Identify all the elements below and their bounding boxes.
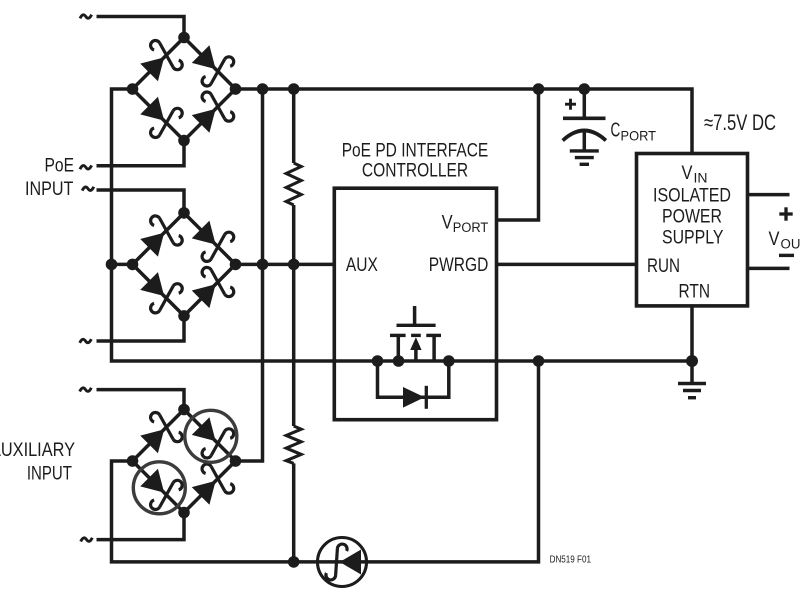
tilde mark top AC input xyxy=(80,15,92,19)
tilde mark INPUT line xyxy=(82,187,94,191)
wire RTN lead down to ground xyxy=(690,306,694,382)
junction dot VPORT riser / top rail xyxy=(533,83,545,95)
svg-text:AUX: AUX xyxy=(346,255,378,276)
bus wire from top rail to BR3 right node (AUX bus) xyxy=(236,89,263,461)
svg-text:RUN: RUN xyxy=(647,256,680,277)
op-box U2 isolated power supply xyxy=(637,154,748,306)
wire stub BR2 left node to left bus xyxy=(112,263,133,267)
junction dot AUX bus / AUX wire xyxy=(257,259,269,271)
mosfet Q1 body arrow xyxy=(410,337,421,350)
mosfet Q1 gate lead xyxy=(413,306,417,324)
bridge BR1 edge wires xyxy=(133,38,185,90)
circled schottky diode D5 xyxy=(326,544,361,580)
bridge BR3 node dots xyxy=(178,404,190,416)
bridge BR2 schottky diode D2 (top to right) xyxy=(187,216,236,265)
op-box U1 PoE PD interface controller xyxy=(334,188,496,420)
mosfet Q1 gate bar xyxy=(397,324,436,327)
wire BR1 left node down the left bus to negative rail xyxy=(112,89,693,361)
wire aux top tilde to bridge BR3 top node xyxy=(97,390,185,410)
circled schottky diode D5 circle xyxy=(318,538,367,587)
wire CPORT lower lead xyxy=(583,132,587,151)
wire resistor bus lower segment xyxy=(292,463,296,562)
resistor R1 xyxy=(286,163,301,205)
wire PoE~ to bridge BR1 bottom node xyxy=(97,141,185,166)
wire lower tilde to bridge BR2 bottom node xyxy=(97,316,185,341)
svg-text:PoE PD INTERFACE: PoE PD INTERFACE xyxy=(342,140,489,161)
ground symbol main xyxy=(678,382,706,385)
junction dot return riser / source rail xyxy=(533,355,545,367)
bridge BR3 schottky diode D4 (bottom to right) xyxy=(187,461,236,510)
svg-text:PWRGD: PWRGD xyxy=(429,255,489,276)
wire VOUT negative stub xyxy=(748,267,790,271)
wire BR3 left node down to bottom return rail xyxy=(112,361,539,562)
svg-text:POWER: POWER xyxy=(662,207,722,228)
junction dot left bus / BR2 left xyxy=(106,259,118,271)
wire VOUT positive stub xyxy=(748,193,790,197)
bridge BR1 node dots xyxy=(178,32,190,44)
bridge BR3 schottky diode D2 (top to right) xyxy=(187,412,236,461)
capacitor CPORT curved plate xyxy=(563,131,606,141)
svg-text:CONTROLLER: CONTROLLER xyxy=(362,160,468,181)
top positive rail from BR1 right node to VIN xyxy=(236,89,693,154)
wire INPUT~ to bridge BR2 top node xyxy=(97,190,185,213)
wire resistor bus middle segment xyxy=(292,205,296,426)
wire CPORT lead from top rail xyxy=(583,89,587,117)
svg-text:AUXILIARY: AUXILIARY xyxy=(0,440,75,461)
bridge BR2 schottky diode D4 (bottom to right) xyxy=(187,264,236,313)
bridge BR1 schottky diode D4 (bottom to right) xyxy=(187,89,236,138)
body diode D6 triangle xyxy=(403,387,425,408)
svg-text:DN519 F01: DN519 F01 xyxy=(550,554,592,566)
junction dot loop right / source rail xyxy=(443,355,455,367)
svg-text:ISOLATED: ISOLATED xyxy=(653,186,731,207)
bridge BR1 schottky diode D3 (left to bottom) xyxy=(135,92,184,141)
mosfet Q1 source lead xyxy=(397,335,401,361)
bridge BR1 schottky diode D2 (top to right) xyxy=(187,40,236,89)
capacitor CPORT plus sign xyxy=(565,103,576,106)
junction dot resistor bus / AUX wire xyxy=(288,259,300,271)
bridge BR3 edge wires xyxy=(133,410,185,462)
circle highlight around BR3 diode D3 xyxy=(133,462,185,514)
label minus sign at VOUT xyxy=(779,254,794,257)
junction dot RTN / negative rail xyxy=(686,355,698,367)
tilde mark aux top xyxy=(80,388,92,392)
junction dot resistor bus / bottom rail xyxy=(288,556,300,568)
bridge BR3 schottky diode D3 (left to bottom) xyxy=(135,464,184,513)
wire PWRGD pin to RUN pin xyxy=(497,263,637,267)
wire aux bottom tilde to bridge BR3 bottom node xyxy=(97,513,185,540)
junction dot loop left / source rail xyxy=(372,355,384,367)
mosfet Q1 channel segments xyxy=(390,334,406,337)
wire VPORT pin up to top rail xyxy=(497,89,539,220)
svg-text:≈7.5V DC: ≈7.5V DC xyxy=(704,110,776,135)
wire resistor bus upper segment xyxy=(292,89,296,163)
svg-text:INPUT: INPUT xyxy=(25,179,74,200)
bridge BR2 edge wires xyxy=(133,213,185,265)
mosfet Q1 drain lead xyxy=(432,335,436,361)
ground symbol below CPORT xyxy=(570,149,599,152)
bridge BR2 schottky diode D1 (lower-left to top) xyxy=(135,213,184,262)
svg-text:SUPPLY: SUPPLY xyxy=(662,228,724,249)
svg-text:RTN: RTN xyxy=(679,282,711,303)
bridge BR2 node dots xyxy=(178,207,190,219)
bridge BR3 schottky diode D1 (lower-left to top) xyxy=(135,409,184,458)
body diode D6 cathode bar xyxy=(425,386,428,409)
resistor R2 xyxy=(286,426,301,463)
junction dot AUX bus / top rail xyxy=(257,83,269,95)
wire AUX pin to BR2 right node xyxy=(236,263,335,267)
tilde mark aux bottom xyxy=(81,538,93,542)
junction dot source lead / source rail xyxy=(393,355,405,367)
capacitor CPORT top plate xyxy=(563,116,606,120)
junction dot CPORT / top rail xyxy=(579,83,591,95)
junction dot resistor bus / top rail xyxy=(288,83,300,95)
label plus sign at VOUT xyxy=(779,212,792,215)
svg-text:INPUT: INPUT xyxy=(27,463,72,484)
circle highlight around BR3 diode D2 xyxy=(185,410,237,462)
bridge BR2 schottky diode D3 (left to bottom) xyxy=(135,267,184,316)
tilde mark lower PoE AC line xyxy=(80,339,92,343)
bridge BR1 schottky diode D1 (lower-left to top) xyxy=(135,37,184,86)
wire from top tilde to bridge BR1 top node xyxy=(97,17,185,38)
wire body diode loop xyxy=(378,361,449,397)
svg-text:PoE: PoE xyxy=(45,156,75,177)
tilde mark PoE line xyxy=(80,165,92,169)
